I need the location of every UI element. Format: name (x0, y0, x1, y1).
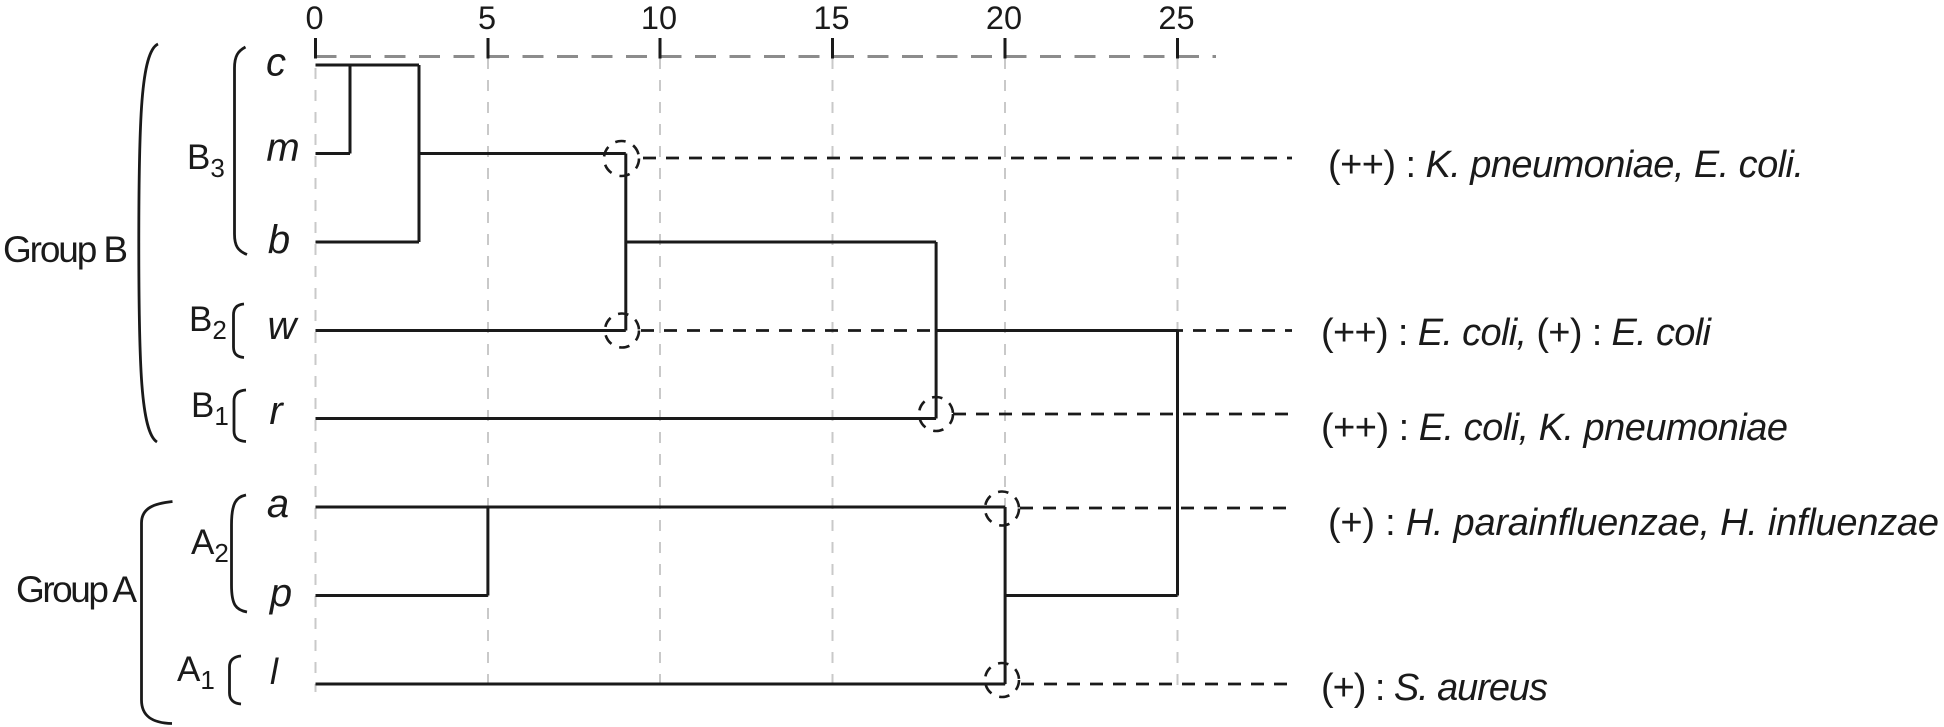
svg-text:b: b (268, 218, 290, 262)
svg-text:(+) : H. parainfluenzae, H. in: (+) : H. parainfluenzae, H. influenzae (1328, 502, 1939, 544)
svg-text:a: a (267, 482, 289, 526)
svg-text:15: 15 (813, 0, 849, 36)
svg-text:r: r (269, 389, 284, 433)
svg-text:5: 5 (478, 0, 496, 36)
svg-text:Group A: Group A (16, 569, 137, 610)
svg-text:Group B: Group B (3, 229, 128, 270)
svg-text:0: 0 (305, 0, 323, 36)
svg-text:25: 25 (1158, 0, 1194, 36)
svg-text:20: 20 (986, 0, 1022, 36)
svg-text:B2: B2 (189, 300, 227, 345)
svg-text:(+) : S. aureus: (+) : S. aureus (1321, 667, 1548, 709)
svg-text:(++) : E. coli, K. pneumoniae: (++) : E. coli, K. pneumoniae (1321, 407, 1788, 449)
svg-text:A2: A2 (191, 523, 229, 568)
svg-text:B3: B3 (187, 138, 225, 183)
svg-text:p: p (269, 571, 292, 615)
svg-text:m: m (266, 126, 299, 170)
svg-text:c: c (266, 41, 286, 85)
svg-text:(++) : K. pneumoniae, E. coli.: (++) : K. pneumoniae, E. coli. (1328, 144, 1804, 186)
svg-text:l: l (270, 651, 279, 692)
svg-text:A1: A1 (177, 650, 215, 695)
svg-text:10: 10 (641, 0, 677, 36)
svg-text:w: w (268, 304, 300, 348)
svg-text:B1: B1 (191, 386, 229, 431)
svg-text:(++) : E. coli, (+) : E. coli: (++) : E. coli, (+) : E. coli (1321, 312, 1713, 354)
